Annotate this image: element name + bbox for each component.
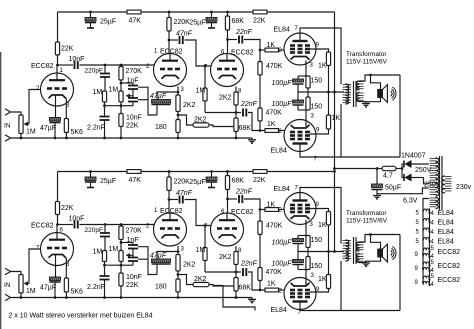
capacitor 25uF (decoupling 1) (85, 172, 96, 188)
label 220K (174, 19, 191, 26)
svg-text:2K2: 2K2 (194, 276, 207, 283)
label 250V lower (424, 182, 441, 189)
junction rail/25uF-2 (210, 11, 213, 14)
wire speaker box right edge (399, 75, 401, 157)
capacitor 22nF (coupling EL84-1) (239, 195, 242, 203)
junction rail/25uF-2 (210, 170, 213, 173)
wire B+ bus vertical (334, 12, 336, 252)
wire input to volume pot (11, 272, 22, 275)
label 47nF (176, 31, 193, 38)
pin 1 V2a anode (154, 208, 158, 214)
pin 1 V1 anode (60, 68, 64, 74)
heater filament EL84 #2 (423, 218, 431, 223)
wire 470K-2 to grid node (259, 121, 261, 131)
transformer 230V primary (mains) (442, 176, 452, 193)
svg-text:50µF: 50µF (385, 185, 401, 192)
junction bus/bottom rail (333, 170, 336, 173)
pin 9 EL84-1 (316, 43, 320, 49)
svg-text:1K: 1K (267, 121, 276, 128)
pin 7 EL84-2 (298, 310, 302, 316)
resistor 22K (rail dropper 2) (253, 170, 267, 174)
wire V1 grid to volume pot wiper (29, 249, 41, 284)
label 180 (155, 284, 167, 291)
pin 4 heater ECC82 #2 (431, 268, 435, 274)
pin 9 heater ECC82 #2 (415, 266, 419, 272)
node V2b anode/22nF (226, 38, 229, 41)
junction 47uF/ground rail (54, 137, 57, 140)
wire V2a cathode to 47uF (157, 92, 178, 100)
wire 1nF top link (121, 242, 133, 244)
label 68K-2 (239, 125, 252, 132)
heater filament ECC82 #1 (422, 248, 431, 258)
wire feedback right link bottom (138, 99, 148, 101)
capacitor 100uF (EL84-1 cathode) (293, 236, 304, 252)
pin 8 V2b cathode (238, 89, 242, 95)
wire cathode row top (298, 235, 308, 237)
wire 180-node to hum pot (178, 275, 193, 285)
label 150-2 (311, 104, 323, 111)
wire 22nF-1 left (228, 39, 238, 41)
svg-text:220pF: 220pF (85, 68, 103, 75)
transformer secondary upper (output) (357, 81, 364, 90)
input terminal ground (5, 294, 11, 300)
wire EL84-2 cathode (305, 110, 307, 127)
junction 1M/V2b grid (204, 224, 207, 227)
wire rail to 68K-1 (227, 12, 229, 16)
junction B+bus/mid row (333, 91, 336, 94)
decorative (0, 52, 2, 329)
resistor 47K (rail dropper) (127, 10, 141, 14)
wire 68K-2 to ground rail (235, 132, 237, 139)
label 470K-1 (266, 223, 283, 230)
ground symbol (speaker return) (362, 261, 370, 266)
resistor 22K (feedback) (119, 273, 123, 286)
wire cathode row top (298, 75, 308, 77)
heater filament ECC82 #3 (422, 276, 431, 286)
label 1nF (127, 78, 139, 85)
wire V2b cathode down (235, 246, 237, 252)
junction 47uF/ground rail (54, 296, 57, 299)
resistor 180 (common cathode) (176, 279, 180, 292)
wire EL84-1 anode to transformer (300, 28, 341, 84)
label ECC82 V2b (231, 50, 254, 57)
wire 4,7 to rectifier node (396, 168, 402, 170)
wire feedback right link bottom (138, 258, 148, 260)
svg-text:ECC82: ECC82 (31, 223, 54, 230)
resistor 470K (EL84-2 grid leak) (258, 268, 262, 281)
wire B+ rail middle (141, 11, 253, 13)
svg-text:ECC82: ECC82 (438, 263, 461, 270)
svg-text:100µF: 100µF (272, 240, 293, 247)
wire rail to 220K (168, 172, 170, 178)
label 1K grid2 (267, 281, 276, 288)
label ECC82 V2a (160, 49, 183, 56)
svg-text:25µF: 25µF (100, 19, 116, 26)
label ECC82 heater #3 (438, 277, 461, 284)
capacitor 25uF (decoupling 1) (85, 12, 96, 28)
capacitor 10nF (coupling) (75, 221, 78, 229)
wire feedback stack bottom link (121, 105, 133, 107)
wire splitter lower node (205, 112, 241, 114)
wire B+ rail right (267, 11, 335, 13)
pin 5 heater ECC82 #1 (431, 246, 435, 252)
junction pots bottom left (103, 104, 106, 107)
node 270K top (120, 64, 123, 67)
junction 2K2b/node (235, 111, 238, 114)
wire B+ rail middle (141, 171, 253, 173)
node EL84-1 grid (259, 49, 262, 52)
label EL84 heater #2 (438, 220, 454, 227)
pin 7 EL84-2 (314, 157, 318, 163)
wire 22nF-1 left (228, 198, 238, 200)
junction rail/220K (168, 170, 171, 173)
label 1K grid1 (267, 42, 276, 49)
resistor 470K (EL84-1 grid leak) (258, 50, 262, 75)
label ECC82 V1 (31, 63, 54, 70)
wire input to volume pot (11, 112, 22, 115)
wire cathode row mid (298, 251, 344, 253)
capacitor 50uF (reservoir) (372, 169, 383, 194)
label 1K grid2 (267, 121, 276, 128)
wire V2a cathode down (177, 246, 179, 252)
svg-text:47nF: 47nF (176, 190, 193, 197)
label 6,3V (403, 198, 418, 205)
svg-text:25µF: 25µF (189, 20, 205, 27)
ground symbol (speaker return) (362, 102, 370, 107)
wire B+ rail right (267, 171, 335, 173)
junction pots bottom right (120, 104, 123, 107)
wire hum pot to 68K node (209, 125, 236, 127)
label 10nF fb (126, 274, 142, 281)
wire heater bus right (429, 209, 431, 286)
svg-text:47µF: 47µF (40, 125, 56, 132)
resistor 470K (EL84-1 grid leak) (258, 210, 262, 235)
pin 9 EL84-2 (316, 287, 320, 293)
svg-text:47K: 47K (129, 18, 142, 25)
wire V2a cathode to 47uF (157, 252, 178, 260)
svg-text:22K: 22K (61, 46, 74, 53)
svg-text:1M: 1M (93, 89, 103, 96)
node V2a anode/47nF (168, 198, 171, 201)
pin 7 EL84-1 (295, 26, 299, 32)
wire V1 grid to volume pot wiper (29, 90, 41, 125)
label 220pF (85, 68, 103, 75)
label IN (4, 282, 11, 289)
label 470K-1 (266, 63, 283, 70)
node 270K top (120, 223, 123, 226)
svg-text:470K: 470K (266, 110, 283, 117)
svg-text:1M: 1M (26, 129, 36, 136)
resistor 5K6 (V1 cathode) (64, 278, 68, 292)
capacitor 2.2nF (100, 117, 110, 139)
capacitor 1nF (feedback) (128, 243, 138, 249)
svg-text:6,3V: 6,3V (403, 198, 418, 205)
transformer HV winding (mains) (430, 158, 439, 196)
ground symbol (PSU) (373, 194, 381, 199)
resistor 1K (EL84-2 grid stopper) (265, 129, 285, 133)
pin 2 V1 grid (36, 86, 40, 92)
capacitor 100uF (EL84-1 cathode) (293, 76, 304, 92)
svg-text:470K: 470K (266, 223, 283, 230)
label IN (4, 123, 11, 130)
svg-text:EL84: EL84 (438, 210, 454, 217)
wire secondary top (360, 235, 401, 243)
label EL84-1 (274, 27, 290, 34)
wire 180 to ground rail (177, 133, 179, 139)
pin 8 V1 cathode (66, 262, 70, 268)
resistor 4,7 (smoothing) (382, 166, 396, 170)
junction 2.2nF/ground rail (103, 296, 106, 299)
pin 2 V2a grid (146, 64, 150, 70)
resistor 470K (EL84-2 grid leak) (258, 108, 262, 121)
label 47K (129, 18, 142, 25)
potentiometer 1M (left, tone) (102, 91, 106, 102)
svg-text:180: 180 (155, 124, 167, 131)
wire 68K to V2b anode (227, 30, 229, 54)
wire 22K to V1 anode node (57, 55, 59, 65)
label ECC82 heater #2 (438, 263, 461, 270)
wire V1 cathode to 47uF (55, 96, 57, 118)
capacitor 47uF (V2a cathode) (152, 259, 171, 275)
wire speaker box bottom edge (341, 156, 400, 158)
junction 5K6/ground rail (65, 137, 68, 140)
svg-text:1M: 1M (93, 249, 103, 256)
resistor 1K (EL84-1 screen) (326, 52, 330, 66)
svg-text:22K: 22K (253, 177, 266, 184)
label 1K grid1 (267, 202, 276, 209)
label 4,7 (383, 173, 393, 180)
label 22K anode (61, 205, 74, 212)
input terminal ground (5, 135, 11, 141)
junction pots bottom left (103, 264, 106, 267)
capacitor 47nF (splitter coupling) (180, 36, 183, 44)
svg-text:10nF: 10nF (126, 274, 142, 281)
label 100uF-1 (272, 240, 293, 247)
resistor 2K2 (V2b cathode) (234, 252, 238, 265)
capacitor 220pF (100, 65, 110, 91)
svg-text:10nF: 10nF (69, 56, 85, 63)
resistor 150 (EL84-1 cathode) (306, 76, 310, 92)
loudspeaker (378, 244, 396, 262)
pin 1 V2a anode (154, 49, 158, 55)
svg-text:1K: 1K (318, 276, 327, 283)
label 1nF (127, 237, 139, 244)
wire EL84-2 cathode (305, 270, 307, 286)
pin 8 V2b cathode (238, 248, 242, 254)
node V1 anode (56, 64, 59, 67)
wire ground rail (11, 297, 253, 299)
label 115V-115V/6V (346, 59, 388, 66)
wire PSU B+ feed (335, 168, 383, 170)
label 1K screen2 (318, 276, 327, 283)
svg-text:220pF: 220pF (85, 227, 103, 234)
svg-text:2K2: 2K2 (219, 95, 232, 102)
pin 4 heater ECC82 #3 (431, 282, 435, 288)
wire EL84-2 anode to transformer (300, 310, 341, 311)
pentode EL84-1 (upper output) (284, 193, 316, 225)
triode V2b (ECC82 second, second half) (211, 213, 244, 246)
svg-text:1M: 1M (196, 247, 206, 254)
junction 22K-fb/ground (120, 296, 123, 299)
svg-text:270K: 270K (126, 68, 143, 75)
capacitor 2.2nF (100, 276, 110, 298)
svg-text:47µF: 47µF (150, 93, 167, 100)
svg-text:100µF: 100µF (272, 80, 293, 87)
wire 470K-2 to grid node (259, 281, 261, 291)
wire splitter lower node (205, 271, 241, 273)
transformer secondary lower (output) (357, 93, 364, 102)
wire 470K-1 to 470K-2 (259, 75, 261, 108)
svg-text:22K: 22K (126, 123, 139, 130)
resistor 220K (V2a anode) (167, 18, 171, 32)
pentode EL84-2 (lower output) (284, 278, 316, 310)
wire cathode row bottom (298, 109, 308, 111)
svg-text:22K: 22K (253, 18, 266, 25)
pin 4 heater EL84 #3 (431, 230, 435, 236)
svg-text:2 x 10 Watt stereo versterker: 2 x 10 Watt stereo versterker met buizen… (9, 313, 153, 320)
wire speaker top lead (371, 235, 381, 250)
junction 68K-2/ground (235, 296, 238, 299)
wire 5K6 to ground rail (65, 133, 67, 139)
label 68K-2 (239, 285, 252, 292)
label 115V-115V/6V (346, 218, 388, 225)
pin 6 V2b anode (221, 209, 225, 215)
wire screen bus upper (328, 225, 330, 252)
pin 5 heater EL84 #2 (416, 220, 420, 226)
wire EL84-1 cathode (305, 61, 307, 77)
label 10nF coupling (69, 56, 85, 63)
label 47uF V1 (40, 285, 56, 292)
wire 180 to ground rail (177, 292, 179, 298)
label 150-1 (311, 78, 323, 85)
wire V1 anode to 10nF (58, 224, 74, 226)
label 1M splitter (196, 88, 206, 95)
svg-text:1K: 1K (267, 202, 276, 209)
junction V2a cathode (177, 250, 180, 253)
pin 9 EL84-1 (316, 202, 320, 208)
label 68K top (232, 18, 245, 25)
svg-text:1M: 1M (26, 288, 36, 295)
loudspeaker (378, 85, 396, 103)
triode V1 (ECC82 first half) (41, 225, 74, 266)
label 2K2 hum pot (194, 117, 207, 124)
capacitor 220pF (100, 225, 110, 251)
wire 10nF to grid node (80, 224, 155, 226)
svg-text:10nF: 10nF (69, 216, 85, 223)
capacitor 25uF (decoupling 2) (206, 172, 217, 188)
svg-text:10nF: 10nF (126, 115, 142, 122)
diode 1N4007 upper (402, 160, 429, 168)
resistor 150 (EL84-1 cathode) (306, 236, 310, 252)
wire 1M right down to 22K (120, 106, 122, 114)
svg-text:5K6: 5K6 (71, 129, 84, 136)
wire feedback right link top (138, 87, 157, 115)
wire 5K6 to ground rail (65, 292, 67, 298)
svg-text:EL84: EL84 (274, 27, 290, 34)
label 100uF-1 (272, 80, 293, 87)
resistor 150 (EL84-2 cathode) (306, 252, 310, 270)
label 2K2 V2a (183, 262, 196, 269)
wire secondary bottom (360, 97, 381, 101)
wire 22nF-1 to EL84-1 grid node (244, 199, 260, 210)
resistor 22K (feedback) (119, 114, 123, 127)
svg-text:68K: 68K (232, 18, 245, 25)
resistor 68K (splitter lower) (234, 272, 238, 291)
label EL84 heater #4 (438, 239, 454, 246)
wire cathode row bottom (298, 269, 308, 271)
svg-text:2.2nF: 2.2nF (87, 125, 105, 132)
junction pot/ground rail (20, 296, 23, 299)
label 25uF-1 (100, 19, 116, 26)
ground symbol (signal ground) (248, 298, 256, 303)
wire 2K2 to 180 node (177, 112, 179, 120)
capacitor 22nF (coupling EL84-2) (243, 109, 246, 117)
label Transformator (346, 51, 387, 58)
svg-text:ECC82: ECC82 (31, 63, 54, 70)
capacitor 47nF (splitter coupling) (180, 196, 183, 204)
junction V2a cathode (177, 91, 180, 94)
svg-text:22nF: 22nF (235, 189, 253, 196)
capacitor 47uF (V1 cathode) (50, 277, 61, 298)
wire HV center tap (377, 188, 429, 194)
capacitor 10nF (coupling) (75, 61, 78, 69)
arrowhead volume pot wiper (24, 122, 30, 126)
capacitor 47uF (V2a cathode) (152, 100, 171, 116)
label 25uF-2 (189, 20, 205, 27)
svg-text:5K6: 5K6 (71, 289, 84, 296)
junction rail/68K-1 (226, 170, 229, 173)
wire V1 cathode to 5K6 (65, 258, 67, 278)
wire ground rail (11, 137, 253, 139)
label ECC82 V2a (160, 208, 183, 215)
resistor 22K (V1 anode) (55, 42, 59, 55)
label 1K screen1 (318, 222, 327, 229)
pin 2 EL84-1 (279, 208, 283, 214)
pin 5 heater EL84 #3 (416, 230, 420, 236)
svg-text:150: 150 (311, 237, 323, 244)
pin 3 V2a cathode (181, 87, 185, 93)
wire 68K-2 to ground rail (235, 291, 237, 298)
svg-text:2K2: 2K2 (219, 254, 232, 261)
svg-text:4,7: 4,7 (383, 173, 393, 180)
label EL84 heater #3 (438, 229, 454, 236)
svg-text:470K: 470K (266, 269, 283, 276)
svg-text:150: 150 (311, 78, 323, 85)
transformer secondary lower (output) (357, 254, 364, 263)
label 1M volume (26, 129, 36, 136)
svg-text:1N4007: 1N4007 (401, 153, 426, 160)
pin 4 heater EL84 #2 (431, 221, 435, 227)
label 22K anode (61, 46, 74, 53)
transformer primary (output) (343, 84, 352, 104)
junction bus/psu feed (333, 167, 336, 170)
pin 6 V1 anode (60, 228, 64, 234)
label 1M volume (26, 288, 36, 295)
svg-text:2K2: 2K2 (183, 262, 196, 269)
transformer primary (output) (343, 240, 352, 261)
junction 68K-2/ground (235, 137, 238, 140)
label 50uF (385, 185, 401, 192)
wire 68K to V2b anode (227, 190, 229, 214)
pin 2 EL84-2 (279, 129, 283, 135)
label 5K6 (71, 129, 84, 136)
wire 47nF to V2b grid (185, 200, 212, 226)
capacitor 100uF (EL84-2 cathode) (293, 252, 304, 270)
label 1M right (109, 87, 119, 94)
potentiometer 2K2 (hum/feedback) (193, 123, 209, 127)
wire rectifier node vertical (401, 164, 403, 178)
label EL84 heater #1 (438, 210, 454, 217)
